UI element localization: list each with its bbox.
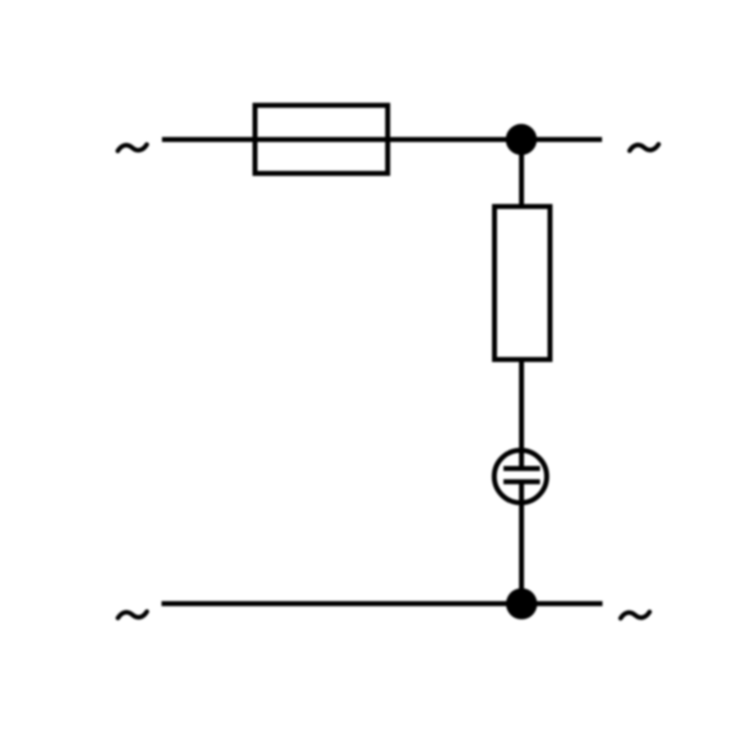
- AC symbol top-left ~: [118, 145, 147, 151]
- AC symbol top-right ~: [630, 144, 659, 150]
- spark gap top electrode: [504, 466, 541, 471]
- AC symbol bottom-left ~: [118, 612, 147, 618]
- wire: vertical segment spark gap to bottom node: [519, 482, 524, 604]
- wire: vertical segment resistor to spark gap: [519, 360, 524, 469]
- fuse F1: [255, 105, 388, 173]
- AC symbol bottom-right ~: [621, 612, 650, 618]
- spark gap FS1 (gas discharge tube circle): [494, 450, 547, 503]
- node B (bottom junction): [506, 588, 537, 619]
- wire: bottom line N (neutral): [162, 601, 603, 606]
- resistor R1 (varistor body): [495, 207, 551, 360]
- node A (top junction): [506, 124, 537, 155]
- wire: vertical branch upper segment: [519, 140, 524, 207]
- wire: top line L (phase): [162, 137, 602, 142]
- spark gap bottom electrode: [504, 479, 541, 484]
